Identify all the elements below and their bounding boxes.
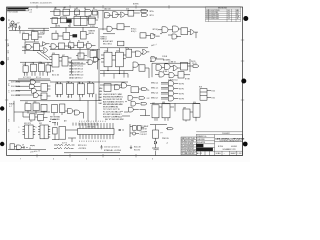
svg-text:+5V PIN 16: +5V PIN 16 [78, 148, 86, 150]
svg-text:1 OF 2: 1 OF 2 [238, 153, 243, 155]
svg-text:7: 7 [20, 158, 21, 160]
svg-text:1: 1 [19, 127, 20, 129]
svg-text:SEL 0 SEL 1: SEL 0 SEL 1 [103, 43, 112, 45]
IC U5 [75, 10, 80, 15]
svg-text:0 - 7: 0 - 7 [9, 106, 12, 108]
wire [152, 144, 159, 148]
wire [120, 85, 142, 89]
svg-text:U69: U69 [78, 82, 81, 84]
wire bus top-left [28, 28, 49, 34]
IC U95 [53, 128, 58, 134]
svg-text:R18 1K: R18 1K [142, 129, 148, 131]
wire pins [50, 57, 72, 66]
dark blob U5c [73, 34, 78, 37]
IC U66 [38, 115, 44, 121]
connector arrow A7 [168, 127, 174, 129]
IC U3b [52, 33, 58, 39]
title block signature fill 1 [196, 144, 203, 147]
wire bus [50, 81, 98, 83]
svg-text:U16: U16 [126, 9, 129, 11]
zone tick right B [241, 99, 244, 101]
wire [9, 24, 17, 31]
connector arrow A5 [139, 97, 145, 100]
svg-text:B RQ 5: B RQ 5 [131, 31, 136, 33]
zone tick top 3 [102, 5, 104, 8]
wire pins below [58, 94, 93, 98]
border frame [7, 7, 243, 156]
IC U72 [60, 104, 65, 113]
svg-text:U62: U62 [25, 102, 28, 104]
wire [107, 13, 140, 15]
svg-text:B 2100: B 2100 [218, 146, 223, 148]
IC U31 [31, 64, 37, 71]
svg-text:4-1: 4-1 [228, 10, 230, 12]
wire [54, 111, 84, 119]
gate U38d [87, 43, 92, 48]
IC U75 [104, 84, 111, 92]
wire pins above [58, 82, 93, 84]
svg-text:5 ECO 0585 CHG: 5 ECO 0585 CHG [206, 18, 220, 20]
resistor R5 [154, 149, 159, 150]
svg-text:U37: U37 [62, 55, 65, 57]
IC U89 [183, 109, 190, 120]
transistor Q1 [11, 21, 14, 24]
IC U69 [78, 84, 85, 95]
IC U96 [59, 127, 66, 140]
svg-text:2-8: 2-8 [7, 129, 9, 131]
IC U33 [46, 65, 51, 72]
gate U22 [173, 26, 179, 32]
svg-text:2-2: 2-2 [7, 119, 9, 121]
zone tick top 2 [69, 5, 71, 8]
punch hole left 4 [0, 142, 4, 146]
IC U64 [41, 104, 47, 111]
gate U49 [156, 65, 162, 71]
svg-text:CON B: CON B [162, 56, 167, 58]
svg-text:INT P1: INT P1 [179, 88, 184, 90]
wire [50, 20, 98, 27]
gate U53 [159, 72, 164, 77]
IC U4 [63, 9, 70, 15]
IC U1 [23, 34, 29, 40]
gate U84 [169, 91, 174, 96]
gate U51 OR [173, 65, 177, 70]
wire [100, 27, 130, 34]
resistor R1 [10, 26, 13, 27]
svg-text:E5: E5 [93, 8, 95, 10]
IC U35 [59, 43, 65, 49]
wire [207, 90, 211, 97]
svg-text:B2: B2 [68, 26, 70, 28]
wire pins above DIP [80, 123, 113, 129]
wire inputs [161, 82, 168, 99]
gate U28 buffer [43, 42, 47, 46]
svg-text:P4 P6: P4 P6 [191, 61, 195, 63]
wire [158, 29, 198, 38]
revision table [206, 7, 241, 22]
wire pins [155, 103, 196, 121]
IC U98b [137, 126, 141, 131]
svg-text:4 T: 4 T [30, 12, 32, 14]
gate U15 OR [121, 12, 125, 17]
wire [122, 98, 140, 116]
zone tick left B [5, 99, 8, 101]
IC U12 [89, 17, 96, 24]
IC U38c [78, 42, 84, 47]
resistor R2 [15, 25, 16, 28]
svg-text:DATA GENERAL CORPORATION: DATA GENERAL CORPORATION [215, 137, 244, 140]
IC U30 [23, 66, 28, 72]
IC U60 [41, 84, 47, 92]
svg-text:KEY ST SW0 SW1 SW2: KEY ST SW0 SW1 SW2 [105, 119, 124, 121]
wire long top [98, 10, 148, 30]
IC U93 [10, 144, 14, 149]
wire [22, 42, 50, 54]
IC U2 [32, 32, 39, 40]
svg-text:R20 2.2K: R20 2.2K [134, 147, 142, 149]
zone tick bottom 3 [102, 154, 104, 157]
svg-text:5: 5 [86, 158, 87, 160]
punch hole left 2 [0, 61, 4, 65]
connector arrow A3 [193, 65, 199, 68]
gate U56 [31, 80, 36, 85]
IC U38e [78, 53, 84, 59]
svg-text:C9: C9 [22, 144, 24, 146]
punch hole left 3 [0, 106, 4, 110]
wire [50, 94, 100, 101]
svg-text:EF: EF [237, 14, 239, 16]
svg-text:E3: E3 [76, 8, 78, 10]
gate U39 [88, 60, 93, 65]
title block [181, 132, 243, 156]
punch hole left 1 [0, 17, 5, 22]
gate U20 [151, 34, 155, 39]
gate U76 [115, 85, 120, 90]
IC U97 wide DIP [78, 129, 115, 135]
svg-text:5 0: 5 0 [67, 96, 69, 98]
svg-text:K3: K3 [87, 41, 89, 43]
gate U83 [169, 86, 174, 91]
connector arrow A1 [141, 10, 148, 13]
svg-text:Y1 XTAL 8.000 MC: Y1 XTAL 8.000 MC [181, 152, 195, 155]
svg-text:U30: U30 [23, 64, 26, 66]
zone tick bottom 1 [36, 154, 38, 157]
gate U18 [107, 26, 112, 31]
svg-text:C2 C8: C2 C8 [192, 63, 197, 65]
svg-text:INT P3: INT P3 [179, 98, 184, 100]
svg-text:E18: E18 [199, 87, 202, 89]
IC U23 [181, 28, 188, 35]
IC U3 [54, 10, 60, 16]
svg-text:1-4: 1-4 [7, 83, 9, 85]
IC U27 [34, 44, 40, 51]
zone tick right D [241, 39, 244, 41]
gate U57 [30, 84, 35, 89]
IC U62 [25, 104, 31, 111]
wire verticals [88, 101, 96, 122]
gate U80 [131, 101, 136, 106]
svg-text:E2: E2 [64, 7, 66, 9]
IC U71 [52, 105, 58, 113]
svg-text:R21 470: R21 470 [134, 149, 140, 151]
svg-text:C10 C11 C12 C13 .01: C10 C11 C12 C13 .01 [104, 147, 120, 149]
svg-text:IO2: IO2 [147, 98, 150, 100]
wire pins U92 [38, 127, 50, 137]
svg-text:U68: U68 [67, 82, 70, 84]
flip-flop U42 [104, 52, 112, 67]
svg-text:REVISIONS: REVISIONS [218, 8, 227, 10]
wire row1 [16, 82, 33, 95]
IC U16 [128, 11, 134, 17]
svg-text:U2: U2 [32, 30, 34, 32]
wire outputs [34, 82, 42, 95]
svg-text:B STB: B STB [185, 79, 190, 81]
svg-text:1-7: 1-7 [7, 90, 9, 92]
wire stubs top [55, 122, 97, 126]
wire [76, 55, 87, 57]
IC U38 [90, 51, 97, 58]
svg-text:U1: U1 [23, 32, 25, 34]
gate U46 OR [143, 49, 147, 54]
svg-text:INT B: INT B [150, 15, 154, 17]
IC U63 [33, 103, 39, 111]
IC U44 [126, 49, 132, 57]
diode CR1 [154, 141, 156, 144]
wire extra verticals [104, 71, 124, 79]
IC U41 [118, 41, 124, 46]
IC U67 [56, 84, 63, 95]
svg-text:RP2 1K X 8: RP2 1K X 8 [78, 145, 86, 147]
svg-text:U67: U67 [56, 82, 59, 84]
svg-text:CLK OUT: CLK OUT [140, 134, 147, 136]
gate U47 [133, 62, 138, 67]
gate U40 [94, 57, 99, 62]
svg-text:B 54: B 54 [212, 90, 215, 92]
svg-text:B SEL 1: B SEL 1 [163, 71, 169, 73]
svg-text:U44: U44 [125, 48, 128, 50]
svg-text:WR EN: WR EN [89, 33, 95, 35]
capacitor C1 [19, 26, 21, 31]
resistor network R4 [54, 144, 75, 148]
svg-text:21-000812: 21-000812 [222, 133, 230, 135]
svg-text:U88: U88 [162, 102, 165, 104]
wire [18, 62, 50, 79]
wire [49, 46, 98, 69]
wire [141, 52, 149, 54]
svg-text:6 2 9 5: 6 2 9 5 [62, 142, 67, 144]
svg-text:U12: U12 [89, 15, 92, 17]
gate U73 [68, 108, 73, 113]
IC U7 [93, 10, 98, 15]
wire [86, 59, 100, 62]
svg-text:INT RQ: INT RQ [153, 29, 159, 31]
wire [14, 86, 51, 122]
connector arrow A2 [142, 14, 148, 17]
IC U11 big [74, 16, 87, 25]
notes block [7, 7, 32, 14]
svg-text:B4 C1 D6: B4 C1 D6 [52, 75, 59, 77]
gate U45 [136, 51, 142, 57]
gate U82 [169, 81, 174, 86]
wire diagonal bus [22, 51, 50, 60]
svg-text:2-5B: 2-5B [7, 50, 9, 53]
gate U81 [129, 107, 134, 112]
wire pins U91 [23, 127, 36, 135]
wire lower [100, 67, 133, 78]
IC U32 [39, 63, 45, 71]
svg-text:C20 33PF: C20 33PF [140, 131, 147, 133]
gate U25 [172, 34, 177, 39]
resistor pack RP1 vertical [49, 119, 56, 123]
wire [71, 45, 96, 51]
svg-text:4: 4 [119, 158, 120, 160]
svg-text:MSK1 1-5: MSK1 1-5 [151, 87, 158, 89]
svg-text:9: 9 [36, 127, 37, 129]
wire [150, 125, 167, 130]
wire [155, 73, 190, 76]
punch hole right 3 [243, 142, 248, 147]
IC U4b [63, 32, 70, 39]
IC U55 [178, 72, 184, 78]
wire [72, 60, 90, 74]
svg-text:U36: U36 [52, 53, 55, 55]
wire [140, 110, 151, 116]
IC U8 [52, 18, 58, 24]
gate U58 [32, 88, 37, 93]
svg-text:9-1: 9-1 [228, 14, 230, 16]
gate U13 [105, 13, 110, 18]
wire [156, 129, 168, 142]
gate U21 [162, 27, 168, 33]
svg-text:IN BUS: IN BUS [9, 104, 14, 106]
svg-text:LD EN T4: LD EN T4 [169, 61, 176, 63]
svg-text:PARTS LIST 21-08: PARTS LIST 21-08 [182, 137, 195, 140]
svg-text:U11: U11 [75, 15, 78, 17]
svg-text:MSK3 1-7: MSK3 1-7 [151, 97, 158, 99]
wire pins [25, 62, 49, 76]
svg-text:PWR ON: PWR ON [162, 138, 169, 140]
gate U54 [169, 73, 174, 78]
svg-text:5-2: 5-2 [228, 18, 230, 20]
wire [25, 34, 44, 42]
svg-text:Y1 8MHZ: Y1 8MHZ [142, 126, 149, 128]
IC U17 [117, 24, 124, 30]
svg-text:3 ECO 0346 CHG: 3 ECO 0346 CHG [206, 14, 220, 16]
IC U48 [139, 65, 145, 71]
svg-text:001-845: 001-845 [231, 146, 237, 148]
svg-text:8 5 1 0: 8 5 1 0 [36, 77, 41, 79]
junction dots center [112, 96, 127, 117]
svg-text:SHEET: SHEET [231, 153, 236, 155]
IC U99 [153, 130, 159, 138]
IC U19 [140, 33, 146, 38]
IC U68 [67, 83, 74, 94]
punch hole right 2 [241, 79, 246, 84]
IC U90 [193, 104, 200, 118]
svg-text:K2: K2 [78, 40, 80, 42]
svg-text:P7: P7 [161, 132, 163, 134]
wire pins [101, 52, 136, 62]
svg-text:6-1: 6-1 [228, 12, 230, 14]
svg-text:MEM D2: MEM D2 [101, 38, 107, 40]
gate U74 [75, 110, 80, 115]
svg-text:2 ECO 0231 REL: 2 ECO 0231 REL [206, 12, 218, 14]
gate U6 [85, 9, 92, 16]
svg-text:U63: U63 [33, 101, 36, 103]
punch hole right 1 [243, 16, 248, 21]
gate U14 [113, 12, 119, 18]
wire [56, 27, 89, 36]
title block signature fill 2 [196, 148, 213, 151]
svg-text:1 8: 1 8 [38, 121, 40, 123]
wire to frame [155, 151, 157, 156]
zone tick top 4 [135, 5, 137, 8]
svg-text:NOTES: NOTES [133, 4, 139, 6]
svg-text:8 8: 8 8 [30, 10, 32, 12]
svg-text:U43: U43 [116, 50, 119, 52]
svg-text:U32: U32 [39, 62, 42, 64]
IC U9 [61, 17, 67, 23]
svg-text:K1: K1 [69, 41, 71, 43]
IC U61 [41, 93, 47, 99]
svg-text:INT P2: INT P2 [179, 93, 184, 95]
svg-text:6: 6 [53, 158, 54, 160]
gate U94 [17, 145, 22, 150]
svg-text:2 9: 2 9 [56, 96, 58, 98]
gate U26 [26, 44, 31, 49]
IC U88 [162, 104, 170, 118]
gate U85 [169, 96, 174, 101]
svg-text:P2: P2 [8, 20, 10, 22]
dark blob U10 [67, 19, 72, 23]
svg-text:1 ECO 0147 PROD: 1 ECO 0147 PROD [206, 10, 221, 12]
svg-text:U89: U89 [183, 107, 186, 109]
capacitor C5 [22, 146, 28, 148]
svg-text:U6: U6 [84, 8, 86, 10]
IC U78 [131, 87, 139, 93]
IC U98a [133, 126, 137, 131]
wire [98, 82, 128, 85]
wire [8, 147, 46, 150]
svg-text:R9: R9 [8, 28, 10, 30]
wire [152, 59, 190, 77]
IC U92 DIP [40, 125, 48, 139]
svg-text:U70: U70 [88, 82, 91, 84]
svg-text:U42: U42 [105, 50, 108, 52]
svg-text:4 ECO 0412 CHG: 4 ECO 0412 CHG [206, 16, 220, 18]
gate U29 OR [44, 48, 48, 53]
wire [136, 128, 145, 134]
IC U91 DIP [25, 125, 34, 138]
wire [162, 66, 193, 68]
zone tick right C [241, 60, 244, 62]
wire pins below DIP [80, 135, 113, 140]
zone tick bottom 2 [69, 154, 71, 157]
zone tick left C [5, 39, 8, 41]
gate U49b [150, 57, 164, 62]
IC U38b [69, 43, 74, 48]
dense label block center [103, 93, 124, 121]
transistor Q2 [132, 132, 135, 135]
zone tick top 5 [168, 5, 170, 8]
ground symbol G1 [100, 145, 102, 149]
wire [9, 31, 49, 34]
svg-text:TITLE 100-845: TITLE 100-845 [7, 11, 18, 13]
IC U87 [152, 105, 159, 118]
svg-text:CHECKED: CHECKED [197, 139, 206, 141]
svg-text:MEM D1: MEM D1 [101, 36, 107, 38]
wire [100, 48, 148, 52]
